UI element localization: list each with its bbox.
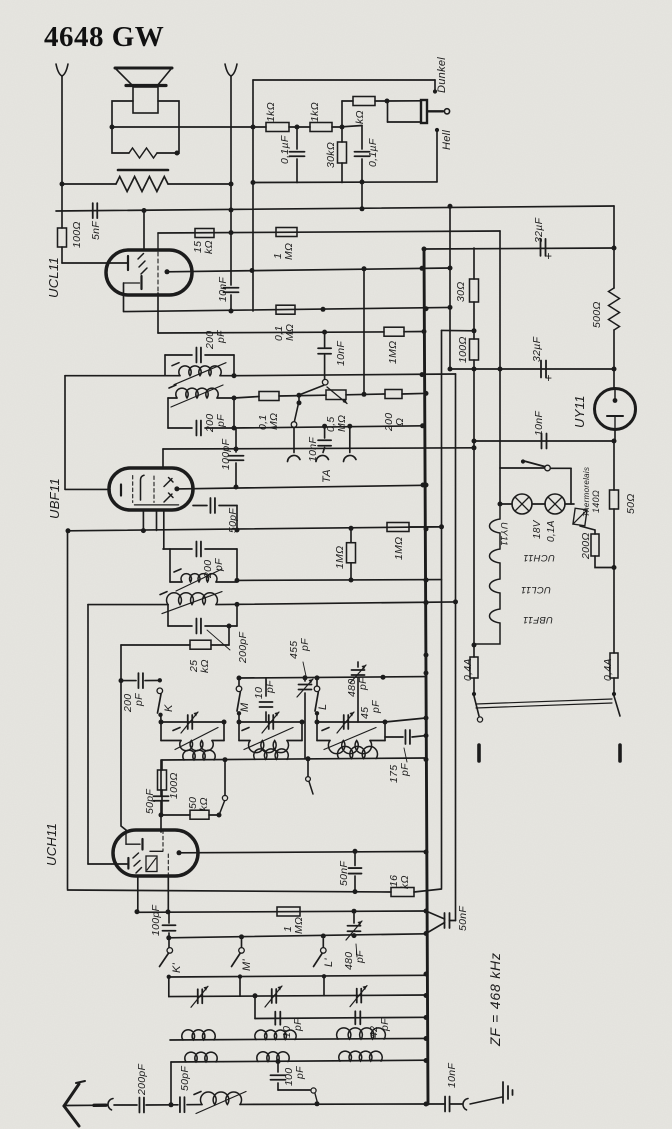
resistor (hum bucking coil)	[129, 148, 157, 158]
antenna symbol	[64, 1084, 79, 1106]
wire L loop right	[384, 722, 386, 741]
svg-text:1kΩ: 1kΩ	[309, 102, 321, 122]
wire K loop right	[223, 722, 225, 741]
dial lamp 1	[512, 494, 532, 514]
wire	[323, 448, 325, 453]
wire	[532, 503, 545, 505]
wire	[238, 713, 240, 722]
resistor 200Ω b	[385, 390, 402, 399]
resistor 16kΩ	[391, 888, 414, 897]
junction	[250, 268, 255, 273]
junction	[217, 813, 222, 818]
terminal Dunkel	[433, 89, 437, 93]
switch linkage	[476, 699, 612, 704]
potentiometer (volume/tone)	[421, 100, 427, 123]
svg-text:kΩ: kΩ	[399, 875, 411, 889]
junction	[612, 367, 617, 372]
wire	[168, 912, 170, 923]
UBF11 vane	[141, 475, 145, 500]
junction	[321, 934, 326, 939]
svg-text:pF: pF	[215, 330, 227, 344]
svg-text:0,4A: 0,4A	[602, 658, 614, 681]
capacitor 200pF IF2 sec	[196, 619, 201, 634]
svg-text:200Ω: 200Ω	[580, 532, 592, 560]
wire M loop top	[239, 721, 302, 723]
junction	[448, 367, 453, 372]
switch L contact	[314, 686, 320, 692]
wire	[229, 625, 237, 627]
wire to UCL11 grid	[62, 262, 127, 264]
capacitor 200pF IF1 sec	[196, 421, 201, 436]
switch K bottom	[158, 713, 162, 717]
junction	[383, 720, 388, 725]
wire	[241, 940, 243, 948]
leader 175	[404, 748, 407, 762]
wire stub M2	[239, 977, 241, 997]
wire L loop left	[316, 722, 318, 741]
svg-text:140Ω: 140Ω	[591, 490, 601, 513]
junction	[175, 151, 180, 156]
inductor M ant2	[254, 749, 289, 760]
capacitor 0,1µF b	[355, 152, 370, 157]
wire	[375, 100, 387, 102]
resistor 100Ω (cathode)	[58, 228, 67, 247]
wire	[205, 427, 234, 429]
wire trim row stub	[168, 977, 170, 997]
wire	[412, 736, 426, 737]
switch M lever	[237, 692, 240, 711]
wire	[342, 100, 353, 102]
wire y375 right	[234, 374, 456, 376]
ground symbol	[502, 1082, 504, 1103]
wire M loop right	[301, 722, 303, 741]
wire rail x614 down b	[613, 509, 615, 567]
UCH11 osc grid dashed	[162, 830, 164, 851]
svg-text:0,1A: 0,1A	[546, 520, 557, 542]
UY11 anode	[613, 398, 618, 403]
wire rail x474 c	[473, 360, 475, 657]
switch L bottom	[315, 711, 319, 715]
svg-text:10nF: 10nF	[217, 277, 229, 302]
svg-text:5nF: 5nF	[90, 221, 102, 240]
svg-text:pF: pF	[292, 1018, 304, 1032]
junction	[498, 367, 503, 372]
junction	[362, 266, 367, 271]
wire M loop left	[238, 722, 240, 741]
wire	[265, 678, 267, 696]
wire	[161, 740, 181, 742]
wire	[370, 740, 385, 742]
wire IF1 right v	[233, 355, 235, 376]
wire long bus y208	[56, 206, 614, 211]
svg-text:pF: pF	[370, 700, 382, 714]
wire rail x455 down	[455, 374, 457, 921]
wire UCH11 bottom pin b	[167, 876, 169, 912]
leader 480b	[356, 944, 357, 957]
junction	[498, 502, 503, 507]
svg-text:30kΩ: 30kΩ	[325, 142, 337, 168]
svg-text:10nF: 10nF	[446, 1063, 458, 1088]
svg-text:100pF: 100pF	[220, 438, 232, 470]
wire up to kΩ resistor	[341, 101, 343, 127]
junction	[251, 125, 256, 130]
wire	[565, 503, 574, 505]
wire bottom main d	[240, 1103, 426, 1105]
dial lamp 2	[545, 494, 565, 514]
junction	[472, 328, 477, 333]
fuse 0,4A left	[470, 657, 478, 678]
capacitor 175pF	[405, 730, 410, 744]
UCL11 divider dashed	[157, 252, 159, 293]
junction	[235, 578, 240, 583]
potentiometer 0,5MΩ	[326, 390, 346, 400]
svg-text:100Ω: 100Ω	[71, 221, 83, 248]
relay switch lever	[524, 461, 545, 467]
wire pot loop top	[387, 100, 421, 102]
junction	[229, 230, 234, 235]
UCH11 osc grid	[150, 850, 163, 852]
wire	[168, 933, 170, 938]
leader 455	[303, 662, 306, 676]
switch M2 lever	[232, 954, 241, 967]
wire bus y937	[169, 934, 426, 938]
junction	[424, 391, 429, 396]
svg-text:32µF: 32µF	[531, 336, 543, 362]
capacitor 480pF	[352, 670, 365, 675]
mains switch contact	[477, 717, 482, 722]
wire	[426, 911, 445, 919]
svg-text:0,4A: 0,4A	[462, 658, 474, 681]
switch K top	[158, 678, 162, 682]
wire UBF11 top pin	[162, 449, 164, 468]
wire y678 bus	[239, 677, 426, 678]
wire IF1 sec right v	[233, 398, 235, 428]
wire y333 a	[158, 332, 384, 333]
wire	[160, 801, 162, 832]
capacitor 200pF IF2	[196, 542, 201, 557]
wire	[217, 397, 234, 399]
switch K2 lever	[160, 954, 169, 967]
junction	[295, 125, 300, 130]
inductor antenna coil	[194, 1092, 246, 1114]
wire	[205, 548, 237, 550]
resistor 500Ω	[609, 288, 620, 330]
svg-text:10nF: 10nF	[335, 341, 347, 366]
svg-text:pF: pF	[133, 693, 145, 707]
junction rail	[424, 972, 429, 977]
resistor 0,1MΩ b	[259, 392, 279, 401]
wire	[238, 678, 240, 686]
svg-text:0,1µF: 0,1µF	[279, 135, 291, 164]
wire	[354, 851, 356, 865]
wire	[402, 392, 423, 395]
switch M2 contact	[239, 948, 245, 954]
capacitor 10nF bot	[445, 1097, 450, 1112]
junction	[448, 204, 453, 209]
455 arrow	[297, 679, 313, 697]
junction	[142, 208, 147, 213]
resistor 15kΩ	[195, 229, 214, 238]
junction	[360, 180, 365, 185]
junction	[385, 99, 390, 104]
wire 100pF v	[235, 428, 237, 449]
resistor 1MΩ osc	[277, 907, 300, 916]
UCL11 screen pin	[157, 233, 159, 250]
capacitor 50pF ant	[180, 1097, 185, 1112]
wire y680	[121, 680, 136, 682]
capacitor 32µF top	[541, 239, 546, 256]
wire	[324, 355, 326, 379]
wire UBF11 grid	[65, 488, 110, 490]
resistor 1MΩ horiz	[387, 523, 409, 532]
junction	[110, 125, 115, 130]
wire	[279, 394, 326, 397]
svg-text:UCH11: UCH11	[44, 823, 59, 866]
capacitor 200pF K	[138, 673, 143, 688]
svg-text:MΩ: MΩ	[293, 917, 305, 934]
junction	[235, 602, 240, 607]
junction	[422, 329, 427, 334]
wire pot loop left	[387, 101, 389, 122]
wire corner x500 down	[499, 231, 501, 468]
switch bot contact	[311, 1088, 316, 1093]
svg-text:K: K	[163, 704, 175, 712]
wire	[170, 1062, 172, 1105]
wire	[317, 740, 330, 742]
inductor K ant2	[183, 750, 215, 760]
mains switch right pivot	[612, 692, 616, 696]
resistor 50kΩ	[190, 810, 209, 819]
wire	[161, 760, 163, 770]
thermorelais element	[573, 508, 587, 526]
capacitor 50nF	[445, 913, 450, 928]
junction rail	[424, 527, 429, 532]
speaker	[115, 68, 172, 113]
socket bottom	[463, 1099, 468, 1110]
wire	[357, 662, 359, 667]
switch lever	[309, 782, 313, 795]
capacitor 100pF bot	[271, 1075, 286, 1080]
wire y604 left	[88, 604, 168, 606]
junction	[60, 182, 65, 187]
capacitor 32µF b	[541, 361, 546, 378]
wire y428 to rail	[234, 426, 423, 428]
svg-text:500Ω: 500Ω	[591, 301, 603, 328]
switch L2 contact	[321, 948, 327, 954]
wire antenna left vertical	[61, 76, 63, 228]
wire y1061 row	[171, 1060, 426, 1062]
junction rail	[424, 931, 429, 936]
resistor field coil	[116, 177, 168, 192]
inductor IF2 secondary	[160, 592, 222, 614]
junction	[349, 578, 354, 583]
junction	[297, 393, 302, 398]
capacitor 10nF TA	[318, 440, 331, 446]
resistor 25kΩ	[190, 640, 211, 649]
UCH11 top pin inner	[125, 830, 127, 844]
svg-text:UCL11: UCL11	[521, 584, 551, 595]
wire	[324, 332, 326, 347]
capacitor 10nF (x231)	[224, 288, 239, 293]
wire	[304, 678, 306, 681]
UCH11 dashed right	[167, 854, 169, 876]
UBF11 diode marks	[164, 478, 173, 503]
junction	[229, 182, 234, 187]
switch K contact	[157, 688, 163, 694]
junction	[232, 396, 237, 401]
capacitor 10nF branch	[318, 348, 331, 354]
junction	[300, 720, 305, 725]
inductor M osc	[242, 728, 293, 753]
wire	[385, 736, 403, 738]
switch K lever	[158, 694, 162, 713]
UBF11 inner bus	[134, 504, 178, 506]
wire y604 right	[216, 602, 456, 605]
wire AVC vertical x364	[363, 269, 365, 394]
junction	[237, 676, 242, 681]
junction rail	[424, 716, 429, 721]
svg-text:100Ω: 100Ω	[168, 772, 180, 799]
svg-text:kΩ: kΩ	[354, 110, 366, 124]
UBF11 plate node	[174, 486, 179, 491]
wire top bus	[253, 79, 435, 81]
capacitor 0,1µF a	[290, 152, 305, 157]
inductor IF2 primary	[174, 569, 222, 591]
wire	[353, 914, 355, 923]
junction	[239, 934, 244, 939]
wire UBF11 plate out	[177, 485, 423, 489]
junction	[353, 849, 358, 854]
wire bottom main b	[146, 1104, 178, 1106]
wire rail x474 a	[473, 248, 475, 279]
svg-text:1MΩ: 1MΩ	[334, 546, 346, 569]
wire	[145, 679, 160, 681]
wire	[293, 428, 295, 453]
terminal fork left	[56, 64, 68, 76]
svg-text:pF: pF	[294, 1066, 306, 1080]
svg-text:18V: 18V	[532, 519, 543, 539]
wire	[170, 581, 182, 583]
wire	[414, 889, 442, 892]
svg-text:Hell: Hell	[441, 130, 453, 150]
svg-text:K': K'	[171, 962, 183, 973]
mains switch left pivot	[472, 692, 476, 696]
resistor 100Ω b	[470, 339, 479, 360]
wire UBF11 bottom pin a	[142, 510, 144, 531]
svg-text:0,1µF: 0,1µF	[367, 138, 379, 167]
svg-text:UBF11: UBF11	[47, 478, 62, 519]
wire	[409, 526, 442, 528]
wire UCH11 bottom pin a	[137, 876, 139, 912]
wire UCL11 cathode pin	[157, 293, 159, 333]
capacitor 200pF ant	[139, 1098, 144, 1113]
junction	[297, 400, 302, 405]
wire	[613, 678, 615, 692]
wire	[160, 715, 162, 722]
junction	[251, 180, 256, 185]
wire grid rail x88 down	[87, 605, 89, 864]
svg-text:10nF: 10nF	[307, 437, 319, 462]
junction	[141, 528, 146, 533]
svg-text:1kΩ: 1kΩ	[265, 102, 277, 122]
junction rail	[424, 483, 429, 488]
wire	[316, 713, 318, 722]
trimmer ant L	[350, 986, 367, 1007]
svg-text:pF: pF	[215, 414, 227, 428]
terminal Hell/Dunkel wiper	[444, 109, 449, 114]
wire Dunkel stub	[434, 80, 436, 90]
tube UBF11 envelope	[109, 468, 193, 510]
junction rail	[424, 671, 429, 676]
wire	[361, 159, 363, 182]
transformer core bar	[118, 169, 168, 172]
junction	[420, 266, 425, 271]
svg-text:1MΩ: 1MΩ	[387, 341, 399, 364]
socket TA 3	[344, 455, 357, 461]
switch TA contact	[291, 422, 297, 428]
junction	[420, 423, 425, 428]
junction	[166, 935, 171, 940]
wire	[168, 427, 192, 429]
svg-text:kΩ: kΩ	[198, 797, 210, 811]
wire	[349, 426, 351, 452]
wire y248	[424, 248, 614, 249]
wire	[341, 163, 343, 183]
wire	[228, 626, 230, 645]
switch lever	[302, 385, 324, 394]
wire rail x121	[121, 645, 126, 830]
junction	[439, 524, 444, 529]
svg-text:Dunkel: Dunkel	[436, 57, 448, 93]
junction	[159, 813, 164, 818]
svg-text:Thermorelais: Thermorelais	[582, 467, 591, 517]
wire IF1 left v	[164, 355, 166, 376]
junction	[453, 599, 458, 604]
junction	[353, 889, 358, 894]
switch contact osc	[222, 795, 227, 800]
capacitor 480pF osc	[348, 926, 361, 932]
wire 100pF stub	[277, 1062, 279, 1073]
leader 200pF	[207, 630, 230, 650]
wire	[278, 1089, 310, 1091]
wire IF2 left v	[169, 549, 171, 582]
wire y449	[163, 448, 474, 449]
svg-text:30Ω: 30Ω	[455, 281, 467, 302]
switch contact bus M	[306, 777, 311, 782]
wire transformer loop left	[112, 101, 133, 153]
junction	[232, 426, 237, 431]
resistor 30Ω	[470, 279, 479, 302]
480b arrow	[346, 921, 362, 940]
junction	[315, 720, 320, 725]
inductor IF1 secondary	[169, 385, 223, 407]
wire to ground	[470, 1097, 502, 1104]
wire	[350, 563, 352, 580]
junction	[253, 993, 258, 998]
wire x441 top corner	[442, 329, 475, 331]
junction	[306, 756, 311, 761]
wire	[277, 1083, 279, 1090]
socket TA 1	[288, 455, 301, 461]
junction rail	[424, 1036, 429, 1041]
junction	[381, 675, 386, 680]
svg-text:MΩ: MΩ	[268, 413, 280, 430]
tube UCL11 envelope	[106, 250, 192, 295]
wire rail x614 down c	[613, 567, 615, 653]
mains switch left lever	[474, 696, 479, 716]
trimmer M	[262, 712, 279, 733]
wire field coil left	[62, 183, 116, 185]
